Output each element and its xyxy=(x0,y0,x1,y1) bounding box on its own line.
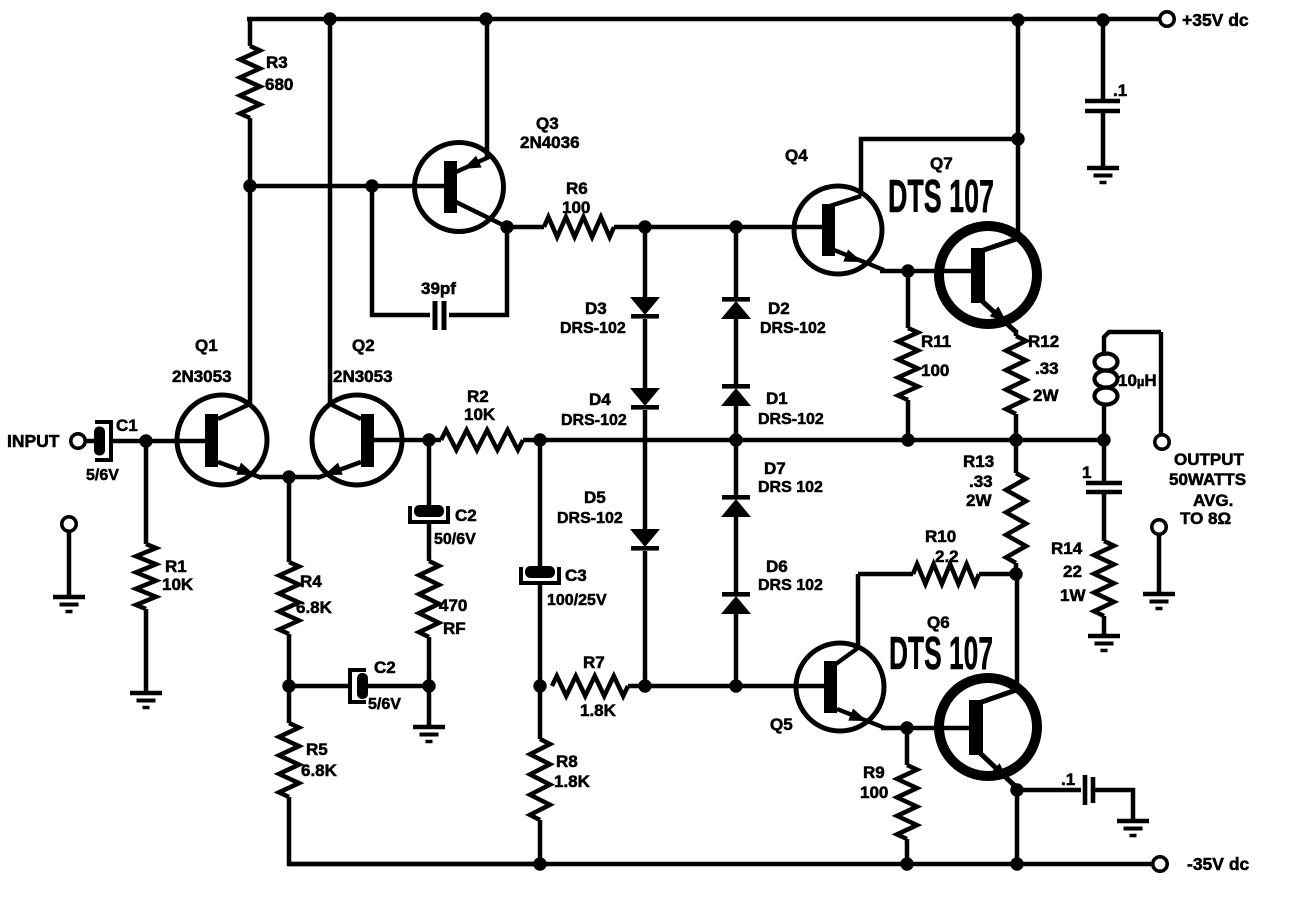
resistor R13 xyxy=(1006,473,1026,563)
svg-text:DRS-102: DRS-102 xyxy=(561,412,627,429)
wire terminal to ground xyxy=(67,531,72,597)
wire D2 top xyxy=(734,227,739,297)
wire C2 to 470 xyxy=(427,522,432,561)
wire Q7 collector column upper xyxy=(1016,19,1021,139)
wire Q1 collector xyxy=(248,186,253,404)
wire D4-D5 xyxy=(643,410,648,529)
ground below .1 xyxy=(1087,166,1119,171)
node Q2 base / R2 / C2 branch xyxy=(422,433,435,446)
svg-text:C3: C3 xyxy=(565,566,587,585)
svg-text:Q2: Q2 xyxy=(352,336,375,355)
svg-text:DTS 107: DTS 107 xyxy=(889,627,993,679)
transistor Q1 xyxy=(177,395,267,485)
wire R13 top xyxy=(1014,440,1019,473)
svg-text:D5: D5 xyxy=(584,488,606,507)
svg-text:-35V dc: -35V dc xyxy=(1187,854,1250,874)
wire R11 top xyxy=(906,271,911,328)
wire Q5 collector up xyxy=(856,574,861,648)
svg-text:.1: .1 xyxy=(1061,770,1075,789)
node Q4 collector / Q7 collector column xyxy=(1011,132,1024,145)
svg-text:2.2: 2.2 xyxy=(935,547,959,566)
wire D7 top xyxy=(734,440,739,495)
wire R8 bottom xyxy=(538,820,543,864)
transistor Q2 xyxy=(312,395,402,485)
svg-text:6.8K: 6.8K xyxy=(301,761,338,780)
wire return to ground xyxy=(1157,534,1162,594)
capacitor .1 (bottom) xyxy=(1083,775,1088,805)
node R9 bottom rail xyxy=(900,857,913,870)
wire Q3 emitter to top rail xyxy=(485,19,490,158)
capacitor C3 electrolytic xyxy=(525,566,555,578)
diode D5 xyxy=(630,529,660,547)
svg-text:R9: R9 xyxy=(863,763,885,782)
svg-text:C2: C2 xyxy=(374,658,396,677)
svg-text:R14: R14 xyxy=(1051,539,1083,558)
node R4 R5 C2 xyxy=(282,679,295,692)
svg-text:100: 100 xyxy=(921,361,949,380)
wire D5 bottom xyxy=(643,551,648,686)
svg-text:R11: R11 xyxy=(921,332,951,351)
wire cap to R14 xyxy=(1102,492,1107,541)
wire R5 bottom to -rail xyxy=(287,686,292,723)
resistor R12 xyxy=(1006,336,1026,414)
svg-text:470: 470 xyxy=(439,596,467,615)
wire Q6 collector column xyxy=(1015,574,1020,688)
transistor Q7 xyxy=(939,226,1037,324)
svg-text:10K: 10K xyxy=(162,575,194,594)
svg-text:6.8K: 6.8K xyxy=(296,598,333,617)
svg-text:C1: C1 xyxy=(116,416,138,435)
svg-text:R2: R2 xyxy=(467,387,489,406)
resistor R4 xyxy=(279,562,299,634)
wire Q7 emitter to R12 xyxy=(1014,330,1019,336)
node Q3 collector / R6 xyxy=(500,220,513,233)
svg-text:AVG.: AVG. xyxy=(1193,491,1233,510)
resistor R8 xyxy=(530,739,550,820)
node R6 / D3 column xyxy=(638,220,651,233)
wire zobel top xyxy=(1102,440,1107,482)
svg-text:R10: R10 xyxy=(925,527,956,546)
wire R4 to node xyxy=(287,634,292,686)
wire input to C1 xyxy=(85,439,95,444)
transistor Q3 xyxy=(415,143,504,232)
wire C3 bottom xyxy=(538,583,543,686)
resistor R10 xyxy=(913,564,979,584)
resistor R1 xyxy=(136,544,156,609)
ground output return xyxy=(1143,592,1175,597)
svg-text:D3: D3 xyxy=(585,299,607,318)
node C2 / 470 / ground xyxy=(422,679,435,692)
node Q1 Q2 emitters xyxy=(282,470,295,483)
wire R7 to Q5 base xyxy=(628,684,824,689)
svg-text:Q1: Q1 xyxy=(195,336,218,355)
svg-text:10µH: 10µH xyxy=(1118,371,1157,390)
svg-text:R7: R7 xyxy=(583,653,605,672)
svg-text:INPUT: INPUT xyxy=(7,431,60,451)
svg-text:2W: 2W xyxy=(966,491,992,510)
svg-text:R3: R3 xyxy=(266,53,288,72)
svg-text:50/6V: 50/6V xyxy=(434,531,476,548)
transistor Q5 xyxy=(796,643,884,731)
resistor R3 xyxy=(240,46,260,118)
svg-text:OUTPUT: OUTPUT xyxy=(1174,450,1245,469)
node R11 bottom rail xyxy=(901,433,914,446)
wire Q7 collector to column xyxy=(1016,139,1021,237)
output terminal xyxy=(1155,435,1169,449)
svg-text:D2: D2 xyxy=(768,299,790,318)
wire R3 bottom to node xyxy=(248,118,253,186)
svg-text:100/25V: 100/25V xyxy=(547,592,607,609)
wire +35V top supply rail xyxy=(247,17,1160,21)
svg-text:680: 680 xyxy=(265,75,293,94)
wire output rail (feedback) xyxy=(523,438,1104,443)
node top rail / bypass cap branch xyxy=(1096,13,1109,26)
inductor 10uH xyxy=(1102,406,1106,440)
resistor R9 xyxy=(897,765,917,839)
svg-text:Q3: Q3 xyxy=(536,114,559,133)
wire Q2 base branch down xyxy=(427,440,432,506)
wire R6 left xyxy=(507,225,544,230)
wire Q2 emitter to junction xyxy=(289,475,319,480)
wire Q4 collector up xyxy=(861,139,1018,196)
wire D6 bottom xyxy=(734,614,739,686)
node top rail / Q3 emitter xyxy=(479,12,492,25)
wire C1 to Q1 base xyxy=(111,439,205,444)
wire D1 to mid rail xyxy=(734,406,739,440)
wire Q3 base from node xyxy=(250,184,445,189)
wire 39pf left leg xyxy=(372,186,430,315)
wire R13 bottom xyxy=(1014,563,1019,574)
svg-text:D6: D6 xyxy=(766,557,788,576)
ground below .1 bottom xyxy=(1117,819,1149,824)
wire C3 top xyxy=(538,440,543,567)
wire Q2 base xyxy=(374,438,441,443)
capacitor C1 electrolytic xyxy=(94,427,105,456)
wire 39pf right leg xyxy=(449,227,507,315)
svg-text:Q5: Q5 xyxy=(770,715,793,734)
wire Q4 emitter to Q7 base xyxy=(880,269,971,274)
node input / R1 xyxy=(139,434,152,447)
svg-text:TO 8Ω: TO 8Ω xyxy=(1180,509,1231,528)
svg-text:R4: R4 xyxy=(300,572,322,591)
capacitor C2 5/6V electrolytic xyxy=(350,670,366,702)
resistor R14 xyxy=(1094,541,1114,616)
svg-text:Q4: Q4 xyxy=(785,146,808,165)
node D5 column bottom xyxy=(638,679,651,692)
resistor 470 RF xyxy=(419,561,439,637)
svg-text:.1: .1 xyxy=(1113,81,1127,100)
wire Q1 emitter to junction xyxy=(260,475,289,480)
svg-text:.33: .33 xyxy=(1035,359,1059,378)
wire C2 to ground node xyxy=(368,684,429,689)
svg-text:DRS-102: DRS-102 xyxy=(758,411,824,428)
svg-text:+35V dc: +35V dc xyxy=(1182,10,1249,30)
diode D2 xyxy=(722,297,750,302)
diode D6 xyxy=(722,592,750,597)
svg-text:100: 100 xyxy=(562,198,590,217)
node R12 bottom rail xyxy=(1009,433,1022,446)
ground left chassis xyxy=(53,595,85,600)
wire R9 bottom xyxy=(905,839,910,864)
svg-text:1W: 1W xyxy=(1060,586,1086,605)
svg-text:C2: C2 xyxy=(455,506,477,525)
svg-text:R13: R13 xyxy=(963,452,994,471)
wire Q5 emitter to Q6 base xyxy=(881,726,969,731)
capacitor 1 (zobel) xyxy=(1086,481,1122,486)
svg-text:DRS-102: DRS-102 xyxy=(760,320,826,337)
svg-text:R12: R12 xyxy=(1028,332,1059,351)
node R13 / R10 / Q6 collector xyxy=(1009,567,1022,580)
svg-text:1.8K: 1.8K xyxy=(580,701,617,720)
svg-text:2N3053: 2N3053 xyxy=(333,367,393,386)
node R3 / Q3 base / Q1 collector xyxy=(243,179,256,192)
wire R11 bottom xyxy=(906,400,911,440)
chassis terminal left xyxy=(62,517,76,531)
svg-text:39pf: 39pf xyxy=(421,279,456,298)
diode D1 xyxy=(722,384,750,389)
svg-text:1.8K: 1.8K xyxy=(554,772,591,791)
wire R5 to bottom rail xyxy=(289,797,540,864)
svg-text:5/6V: 5/6V xyxy=(368,696,401,713)
svg-text:D1: D1 xyxy=(766,389,788,408)
node C3 branch xyxy=(533,433,546,446)
wire R9 top xyxy=(905,728,910,765)
wire R14 bottom xyxy=(1102,616,1107,636)
transistor Q6 xyxy=(939,678,1037,776)
svg-text:DRS 102: DRS 102 xyxy=(758,479,823,496)
svg-text:2N4036: 2N4036 xyxy=(520,133,580,152)
svg-text:5/6V: 5/6V xyxy=(86,467,119,484)
wire emitters down xyxy=(287,477,292,562)
diode D3 xyxy=(630,297,660,315)
svg-text:2N3053: 2N3053 xyxy=(172,367,232,386)
wire Q6 emitter to node xyxy=(1015,786,1017,790)
wire R8 top xyxy=(538,686,543,739)
svg-text:2W: 2W xyxy=(1033,386,1059,405)
wire R3 top xyxy=(248,19,253,46)
node R8 bottom rail xyxy=(533,857,546,870)
wire D7-D6 xyxy=(734,517,739,592)
svg-text:DRS 102: DRS 102 xyxy=(758,577,823,594)
node bias column top xyxy=(729,220,742,233)
node Q4 emitter / R11 / Q7 base xyxy=(901,264,914,277)
svg-text:DRS-102: DRS-102 xyxy=(557,510,623,527)
resistor R5 xyxy=(279,723,299,797)
power terminal +35V dc xyxy=(1160,12,1174,26)
node Q5 emitter / R9 / Q6 base xyxy=(900,721,913,734)
capacitor .1 (top) xyxy=(1085,99,1120,104)
wire D3-D4 xyxy=(643,319,648,388)
svg-text:22: 22 xyxy=(1063,562,1082,581)
node Q6 emitter bottom rail xyxy=(1010,857,1023,870)
power terminal -35V dc xyxy=(1153,857,1167,871)
wire D3 top xyxy=(643,227,648,297)
svg-text:R8: R8 xyxy=(556,752,578,771)
node top rail / R3 xyxy=(323,12,336,25)
node C3 / R7 / R8 xyxy=(533,679,546,692)
wire R1 top xyxy=(144,441,149,544)
node top rail / Q7 collector branch xyxy=(1011,13,1024,26)
output return terminal xyxy=(1152,520,1166,534)
ground below C2 xyxy=(413,725,445,730)
node Q6 emitter / .1 cap xyxy=(1010,783,1023,796)
svg-text:10K: 10K xyxy=(464,405,496,424)
capacitor 39pf xyxy=(433,301,438,330)
wire R12 bottom xyxy=(1014,414,1019,440)
svg-text:DTS 107: DTS 107 xyxy=(888,170,994,222)
wire D2-D1 xyxy=(734,319,739,384)
input terminal xyxy=(71,434,85,448)
wire Q2 collector to top rail xyxy=(328,19,333,404)
svg-text:RF: RF xyxy=(443,619,466,638)
svg-text:.33: .33 xyxy=(969,472,993,491)
transistor Q4 xyxy=(794,186,882,274)
wire bypass top xyxy=(1101,19,1106,100)
resistor R2 xyxy=(441,430,523,450)
svg-text:D4: D4 xyxy=(589,390,611,409)
svg-text:R1: R1 xyxy=(165,557,187,576)
resistor R6 xyxy=(544,217,614,237)
wire bypass bottom xyxy=(1101,111,1106,168)
diode D4 xyxy=(630,388,660,406)
svg-text:100: 100 xyxy=(860,783,888,802)
wire R10 right xyxy=(979,572,1016,577)
resistor R7 xyxy=(552,676,628,696)
node 39pf tap on Q3 base xyxy=(365,179,378,192)
wire cap to ground xyxy=(1093,790,1133,821)
ground below R1 xyxy=(130,691,162,696)
wire Q6 emitter to rail xyxy=(1015,790,1020,864)
svg-text:50WATTS: 50WATTS xyxy=(1169,470,1246,489)
svg-text:D7: D7 xyxy=(764,459,786,478)
node inductor / zobel xyxy=(1097,433,1110,446)
wire R10 left xyxy=(858,572,913,577)
wire -35V bottom supply rail xyxy=(289,862,1160,866)
node bias column / output rail xyxy=(729,433,742,446)
diode D7 xyxy=(722,495,750,500)
svg-text:DRS-102: DRS-102 xyxy=(560,320,626,337)
svg-text:R6: R6 xyxy=(566,179,588,198)
wire R6 right to Q4 base xyxy=(614,225,822,230)
svg-text:1: 1 xyxy=(1082,463,1091,482)
wire to ground xyxy=(427,686,432,727)
resistor R11 xyxy=(898,328,918,400)
capacitor C2 50/6V electrolytic xyxy=(414,505,444,517)
wire 470 to node xyxy=(427,637,432,686)
wire R1 bottom xyxy=(144,609,149,692)
ground below R14 xyxy=(1088,634,1120,639)
wire Q6 emitter to cap xyxy=(1017,788,1081,793)
node D6 column bottom xyxy=(729,679,742,692)
svg-text:R5: R5 xyxy=(306,740,328,759)
wire node to C2 xyxy=(289,684,350,689)
